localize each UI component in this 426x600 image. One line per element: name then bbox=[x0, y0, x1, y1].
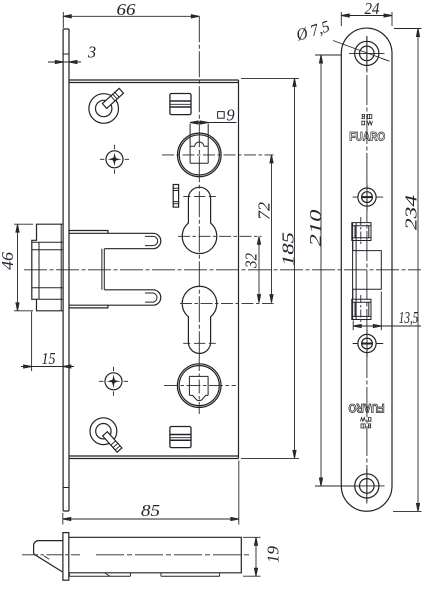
screw hole top bbox=[349, 36, 385, 71]
dimension 32 bbox=[242, 236, 261, 302]
dimension 66 bbox=[63, 0, 199, 28]
slider stop bottom bbox=[170, 427, 191, 448]
dimension 46 bbox=[0, 224, 33, 311]
latch cutout top bbox=[352, 223, 371, 241]
faceplate vertical centerline bbox=[366, 36, 368, 503]
screw hole upper middle bbox=[353, 183, 384, 211]
svg-text:185: 185 bbox=[279, 232, 298, 266]
main horizontal axis centerline bbox=[24, 269, 421, 271]
cylinder lower horizontal centerline bbox=[180, 302, 274, 304]
svg-text:85: 85 bbox=[141, 501, 160, 520]
svg-text:Ø 7,5: Ø 7,5 bbox=[293, 16, 332, 44]
svg-text:66: 66 bbox=[117, 0, 137, 19]
hub top horizontal centerline bbox=[162, 154, 274, 156]
vertical centerline through hub and cylinders bbox=[198, 16, 200, 360]
diameter 7,5 leader bbox=[293, 16, 390, 61]
fork base bbox=[102, 249, 104, 290]
svg-text:9: 9 bbox=[226, 106, 234, 125]
dimension 72 bbox=[255, 155, 274, 303]
strike faceplate front view outline bbox=[341, 28, 392, 511]
dimension 234 bbox=[393, 29, 422, 512]
bottom view deadbolt nose bbox=[34, 541, 63, 572]
deadbolt tail fork upper rail bbox=[69, 231, 161, 249]
svg-text:19: 19 bbox=[264, 546, 283, 564]
hub bottom crosshair bbox=[164, 385, 236, 387]
bottom view lock case bbox=[69, 537, 242, 576]
svg-text:234: 234 bbox=[402, 194, 421, 230]
follower hub top bbox=[178, 124, 222, 177]
spring detail bbox=[173, 185, 178, 208]
toggle lever bottom bbox=[90, 418, 122, 452]
svg-text:32: 32 bbox=[242, 253, 261, 269]
bottom view axis centerline bbox=[22, 554, 80, 556]
svg-text:46: 46 bbox=[0, 251, 17, 270]
svg-text:3: 3 bbox=[87, 43, 96, 62]
dimension 24 bbox=[341, 0, 392, 26]
dimension 15 bbox=[21, 312, 74, 372]
svg-text:13,5: 13,5 bbox=[399, 308, 419, 327]
dimension 85 bbox=[63, 461, 239, 525]
deadbolt head front view bbox=[32, 224, 63, 311]
svg-text:72: 72 bbox=[255, 201, 274, 220]
follower hub bottom bbox=[177, 364, 221, 408]
dimension 13,5 bbox=[353, 292, 421, 331]
bottom view faceplate end bbox=[63, 533, 69, 581]
cylinder hole lower bbox=[182, 286, 217, 353]
lock case body outline bbox=[69, 80, 239, 459]
latch cutout bottom bbox=[352, 299, 371, 319]
screw hole lower middle bbox=[353, 330, 384, 358]
dimension 210 bbox=[306, 55, 359, 486]
dimension square 9 bbox=[190, 106, 236, 125]
dimension 19 bbox=[243, 537, 283, 576]
svg-text:210: 210 bbox=[306, 209, 325, 247]
brand emblem top bbox=[361, 114, 372, 125]
cutout centerline bbox=[360, 217, 362, 324]
svg-text:24: 24 bbox=[365, 0, 380, 18]
brand emblem bottom (inverted) bbox=[360, 418, 371, 429]
fixing screw bottom bbox=[99, 367, 128, 396]
dimension 3 bbox=[48, 43, 96, 64]
slider stop top bbox=[170, 94, 191, 115]
cylinder hole upper bbox=[182, 187, 217, 253]
deadbolt tail fork lower rail bbox=[69, 290, 161, 308]
cylinder upper horizontal centerline bbox=[178, 235, 262, 237]
svg-text:15: 15 bbox=[42, 349, 56, 368]
faceplate side view bbox=[63, 29, 69, 511]
deadbolt cutout bbox=[353, 223, 382, 320]
screw hole bottom bbox=[349, 469, 385, 504]
dimension 185 bbox=[241, 78, 299, 458]
fixing screw top bbox=[100, 145, 129, 174]
toggle lever top bbox=[89, 88, 124, 123]
